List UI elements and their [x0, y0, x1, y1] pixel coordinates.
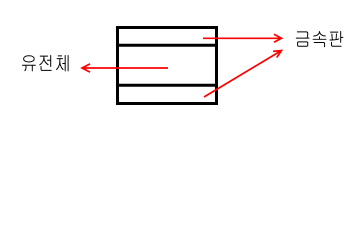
label 유전체 (dielectric)	[22, 55, 69, 71]
capacitor body outline	[118, 28, 217, 104]
arrow from dielectric region to label 유전체	[82, 64, 168, 72]
arrow from bottom metal plate to label 금속판	[204, 51, 282, 98]
arrow from top metal plate to label 금속판	[203, 34, 282, 42]
bottom plate upper boundary line	[116, 84, 218, 87]
label 금속판 (metal plate)	[296, 31, 344, 47]
top plate lower boundary line	[116, 44, 218, 47]
